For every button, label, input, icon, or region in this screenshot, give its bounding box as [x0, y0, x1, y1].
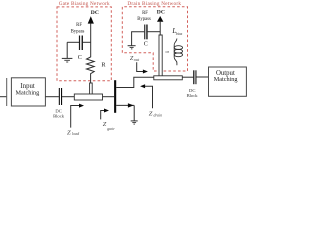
svg-text:C: C: [144, 41, 148, 48]
wire transistor drain: [116, 77, 154, 87]
capacitor DC Block (input) plates: [59, 88, 60, 105]
svg-text:Gate Biasing Network: Gate Biasing Network: [59, 1, 110, 7]
microstrip line (gate T bar): [74, 94, 102, 100]
svg-text:Block: Block: [187, 93, 199, 98]
wire input box to DC block: [45, 96, 59, 98]
wire drain bypass cap right: [148, 31, 161, 33]
ground (source): [131, 121, 138, 124]
svg-text:Drain Biasing Network: Drain Biasing Network: [127, 1, 181, 7]
drain biasing network enclosure (dashed red box): [122, 7, 187, 71]
node Z_out annotation arrow: [137, 62, 144, 71]
svg-text:Matching: Matching: [16, 89, 40, 96]
capacitor C (drain RF bypass) plates: [144, 25, 145, 40]
microstrip line (drain bar): [154, 76, 183, 80]
wire drain bar to DC block: [182, 76, 193, 78]
wire source to ground: [133, 105, 135, 121]
input matching block: [11, 78, 45, 106]
svg-text:DC: DC: [91, 10, 99, 16]
inductor L bias coil: [174, 39, 182, 66]
wire gate bypass cap right: [83, 41, 91, 43]
wire to gate ground: [66, 42, 68, 58]
svg-text:DC: DC: [55, 108, 61, 113]
svg-text:Z: Z: [103, 121, 107, 128]
svg-text:load: load: [72, 131, 80, 136]
svg-text:or: or: [166, 49, 170, 54]
wire gate T-line to transistor gate: [103, 96, 115, 98]
microstrip neck (drain feed line): [159, 35, 162, 76]
svg-text:RF: RF: [142, 11, 148, 16]
svg-text:bias: bias: [176, 31, 183, 36]
wire transistor source: [116, 104, 134, 106]
svg-text:Matching: Matching: [214, 76, 238, 83]
resistor R (gate bias): [87, 57, 95, 83]
wire gate bypass cap left: [67, 41, 79, 43]
svg-text:DC: DC: [157, 10, 165, 16]
wire DC block to gate T-line: [62, 96, 74, 98]
ground (drain bypass): [128, 46, 136, 49]
gate biasing network enclosure (dashed red box): [57, 7, 111, 81]
capacitor DC Block (output) plates: [193, 70, 194, 84]
wire drain DC stem: [159, 22, 161, 36]
microstrip neck (gate T junction): [90, 83, 93, 94]
transistor Q1 (channel bar): [114, 80, 116, 113]
svg-text:Block: Block: [53, 114, 65, 119]
output matching block: [209, 67, 247, 96]
wire drain bypass cap left + corner: [132, 32, 145, 46]
svg-text:R: R: [101, 61, 106, 68]
drain DC supply arrow: [157, 16, 163, 22]
capacitor C (gate RF bypass) plates: [79, 36, 80, 51]
svg-text:out: out: [134, 57, 140, 62]
svg-text:drain: drain: [154, 113, 163, 118]
wire DC block to output box: [197, 76, 209, 78]
node Z_drain annotation arrow: [145, 86, 153, 108]
wire gate DC stem: [90, 23, 92, 57]
source arrowhead: [128, 103, 134, 107]
svg-text:gate: gate: [107, 126, 114, 131]
svg-text:Z: Z: [149, 110, 153, 117]
gate DC supply arrow: [88, 16, 94, 23]
input port reference line: [6, 78, 8, 106]
wire RF input: [0, 96, 7, 98]
svg-text:RF: RF: [76, 23, 82, 28]
node Z_gate annotation arrow: [101, 111, 105, 120]
svg-text:C: C: [78, 54, 82, 61]
ground (gate bypass): [62, 58, 73, 62]
node Z_load annotation arrow: [71, 106, 80, 128]
svg-text:Z: Z: [67, 129, 71, 136]
svg-text:Bypass: Bypass: [71, 30, 85, 35]
svg-text:Bypass: Bypass: [137, 17, 151, 22]
